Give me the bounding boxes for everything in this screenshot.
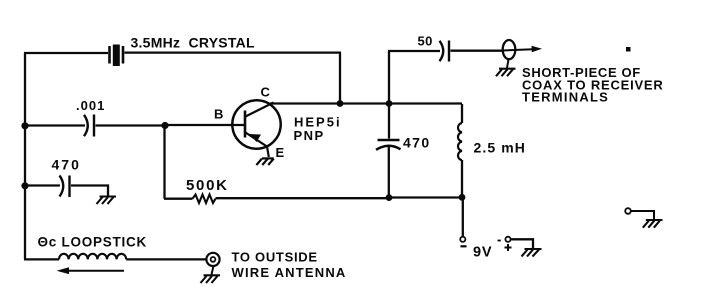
wire left vertical <box>24 53 26 259</box>
wire bottom rail right <box>389 196 462 198</box>
node junction left/470 <box>21 182 28 189</box>
coax connector J1 <box>503 40 542 68</box>
svg-text:470: 470 <box>52 156 81 172</box>
transistor Q1 HEP51 PNP <box>232 100 280 157</box>
svg-text:PNP: PNP <box>294 128 325 143</box>
wire base <box>165 124 245 126</box>
svg-text:9V: 9V <box>473 244 492 260</box>
svg-text:500K: 500K <box>186 177 229 194</box>
wire 500K vertical <box>163 126 165 199</box>
inductor L1 loopstick <box>59 254 126 260</box>
wire inductor top <box>461 104 463 123</box>
wire antenna terminal to ground <box>212 266 214 275</box>
wire inductor bottom <box>461 160 463 198</box>
svg-text:2.5 mH: 2.5 mH <box>474 140 527 156</box>
svg-text:50: 50 <box>418 34 433 49</box>
wire collector horizontal <box>270 102 462 104</box>
capacitor C2 470 <box>60 176 70 198</box>
resistor R1 500K <box>164 195 389 204</box>
wire battery negative lead <box>462 198 464 237</box>
wire battery positive to ground <box>511 239 533 248</box>
battery B1 terminal negative <box>460 237 465 242</box>
svg-text:B: B <box>214 107 223 122</box>
wire 470 branch <box>25 184 60 186</box>
svg-text:TERMINALS: TERMINALS <box>522 90 609 105</box>
tuning arrow <box>57 267 125 274</box>
crystal Y1 3.5MHz <box>110 45 124 67</box>
node base junction <box>161 122 168 129</box>
svg-text:E: E <box>276 145 285 160</box>
wire crystal branch vertical <box>339 53 341 104</box>
wire .001 to base node <box>96 124 166 126</box>
svg-text:TO OUTSIDE: TO OUTSIDE <box>232 250 318 265</box>
terminal J3 receiver ground <box>625 208 654 219</box>
antenna terminal J2 <box>206 253 219 266</box>
wire loopstick left <box>24 258 59 260</box>
svg-text:470: 470 <box>403 134 431 150</box>
stray minus mark <box>498 240 501 242</box>
node junction collector/bypass <box>386 100 393 107</box>
ground battery <box>522 249 542 257</box>
svg-text:Θc LOOPSTICK: Θc LOOPSTICK <box>38 235 148 250</box>
ground coax <box>496 69 516 77</box>
ground 470 branch <box>97 197 117 205</box>
wire 50 cap to coax <box>451 50 504 52</box>
wire bypass vertical <box>388 104 391 198</box>
ground antenna <box>201 275 221 283</box>
capacitor C3 470 bypass <box>376 140 401 150</box>
wire .001 branch <box>25 124 85 126</box>
wire crystal to right corner <box>125 51 342 53</box>
ground emitter <box>256 158 273 165</box>
wire top-left horizontal <box>24 52 108 54</box>
wire to 50 cap <box>388 51 440 104</box>
svg-text:C: C <box>261 85 271 100</box>
battery B1 terminal positive <box>505 237 510 242</box>
terminal mark small square <box>626 47 631 52</box>
inductor L2 2.5mH <box>458 123 462 160</box>
label minus <box>461 245 467 247</box>
capacitor C1 .001 <box>84 115 94 137</box>
node junction bottom bypass <box>386 194 393 201</box>
capacitor C4 50 <box>440 41 450 62</box>
svg-text:WIRE ANTENNA: WIRE ANTENNA <box>232 265 347 280</box>
svg-text:.001: .001 <box>76 98 105 113</box>
node junction crystal/collector <box>337 100 344 107</box>
node junction bottom inductor <box>459 194 466 201</box>
wire 470 to ground <box>71 186 108 197</box>
svg-text:3.5MHz CRYSTAL: 3.5MHz CRYSTAL <box>131 35 256 51</box>
ground receiver terminal <box>643 220 663 228</box>
node junction left/.001 <box>21 122 28 129</box>
label plus <box>505 244 512 251</box>
wire loopstick to antenna terminal <box>126 258 206 260</box>
